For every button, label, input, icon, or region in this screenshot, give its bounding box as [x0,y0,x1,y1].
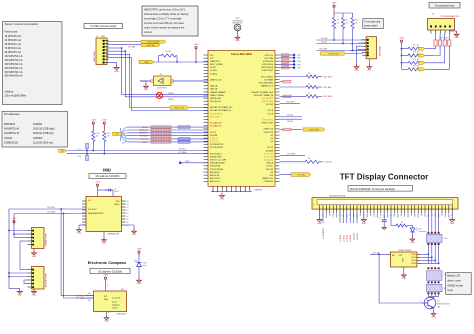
svg-text:RN1: RN1 [444,238,448,240]
svg-text:SDIO CD/NCK: SDIO CD/NCK [261,76,274,78]
svg-text:SDORA/: SDORA/ [210,134,218,137]
svg-text:LCD SDI: LCD SDI [323,87,332,89]
svg-text:Electronic Compass: Electronic Compass [88,260,127,265]
svg-text:100nF: 100nF [114,191,120,193]
svg-text:G3: G3 [271,138,273,140]
svg-text:SD/6_A4_D6: SD/6_A4_D6 [210,100,221,103]
svg-text:72 MHz/44 mA: 72 MHz/44 mA [5,47,22,50]
svg-text:VBAT/VRTC: VBAT/VRTC [210,60,221,63]
svg-text:VS1011: VS1011 [4,137,13,140]
svg-text:SDIO A2 BT5 SPARE_2b: SDIO A2 BT5 SPARE_2b [210,109,231,112]
svg-text:TP3: TP3 [297,61,300,63]
svg-text:[CTU]_TX: [CTU]_TX [210,138,219,140]
svg-text:TP5: TP5 [297,68,300,70]
svg-text:AUD DOUT: AUD DOUT [210,180,221,183]
svg-text:Teensy 4 current consumption:: Teensy 4 current consumption: [5,23,39,26]
svg-text:LDC SW: LDC SW [286,102,294,104]
svg-text:TP10: TP10 [185,161,190,163]
svg-text:3-axis: 3-axis [112,302,117,304]
svg-text:power switch: power switch [364,25,378,28]
svg-text:PCXXXSLBXAXXTXC: PCXXXSLBXAXXTXC [441,15,460,18]
svg-text:GND: GND [410,242,415,244]
svg-text:AP2502 is hard: AP2502 is hard [447,284,463,287]
svg-text:AUD LRCLK: AUD LRCLK [210,177,221,180]
svg-text:LED PCB A+K: LED PCB A+K [147,40,160,43]
svg-text:sensor: sensor [112,307,118,310]
svg-text:5V USB: 5V USB [210,70,217,72]
svg-text:WDT/DT_LLC_WM: WDT/DT_LLC_WM [210,160,226,162]
svg-text:CAM/A9 STANDBY: CAM/A9 STANDBY [210,91,227,94]
svg-text:LCD D2: LCD D2 [347,235,349,242]
svg-text:CAN_2B: CAN_2B [210,88,218,91]
svg-text:To membrane keys: To membrane keys [435,5,455,8]
svg-text:[CTU] TX3: [CTU] TX3 [264,153,273,155]
svg-text:VDDIO: VDDIO [114,204,120,206]
svg-text:1: 1 [420,301,421,303]
svg-text:SDIO A4 TX2 SPARE_2A 5: SDIO A4 TX2 SPARE_2A 5 [210,106,232,109]
svg-text:SYN CNAI: SYN CNAI [264,57,273,60]
svg-text:GND: GND [220,199,225,201]
svg-text:R8: R8 [308,158,310,160]
svg-text:LCD RESET: LCD RESET [323,227,325,238]
svg-text:SDA A4 TX2 SPARE_2A 3: SDA A4 TX2 SPARE_2A 3 [251,91,273,94]
svg-text:GND: GND [104,321,109,323]
svg-text:LED4: LED4 [411,263,416,265]
svg-text:LCD D0: LCD D0 [340,235,342,242]
svg-text:SW: SW [399,255,402,257]
svg-text:[PU] DC/SD2: [PU] DC/SD2 [262,101,273,103]
svg-text:R5: R5 [308,73,310,75]
svg-text:SCHOTTKY: SCHOTTKY [157,87,168,89]
svg-text:600 MHz/83 mA: 600 MHz/83 mA [5,75,23,78]
svg-text:G9: G9 [271,172,273,174]
svg-text:SDT/DT SPI/A4: SDT/DT SPI/A4 [210,168,223,171]
svg-text:0011011 (CSB low): 0011011 (CSB low) [33,132,54,135]
svg-text:SPI MOSI: SPI MOSI [139,130,148,132]
svg-text:[PU] DC/SD: [PU] DC/SD [210,116,221,118]
svg-text:R2x: R2x [346,20,349,22]
svg-text:GND: GND [431,317,436,319]
svg-text:Osc pin TL: Osc pin TL [264,160,273,162]
svg-text:IMU: IMU [103,168,111,173]
svg-text:to get: to get [447,289,453,292]
svg-text:LDC SW: LDC SW [319,49,327,51]
svg-text:under 0-ohm resistor to measur: under 0-ohm resistor to measure the [144,27,185,30]
svg-text:SDIO SDN NWKI: SDIO SDN NWKI [259,83,274,85]
svg-text:ENCODER: ENCODER [380,45,382,56]
svg-text:GND: GND [17,295,22,297]
svg-text:GND: GND [317,223,322,225]
svg-text:LSM6DSO32: LSM6DSO32 [4,141,19,144]
svg-text:G1/BT RTS: G1/BT RTS [264,132,274,134]
svg-text:LDC A: LDC A [321,37,327,40]
svg-text:GND: GND [362,223,367,225]
svg-text:magnetic: magnetic [112,304,120,307]
svg-text:SYNTH D4(O): SYNTH D4(O) [261,67,273,69]
svg-text:120 MHz/53 mA: 120 MHz/53 mA [5,55,23,58]
svg-text:LCD D5: LCD D5 [357,233,359,240]
svg-text:0011010 (CSB high): 0011010 (CSB high) [33,128,55,131]
svg-text:SSD/A A/T/SD/A4: SSD/A A/T/SD/A4 [210,162,225,165]
svg-text:R3x 10k: R3x 10k [413,59,419,61]
svg-text:SD TX/: SD TX/ [210,132,216,134]
svg-text:96 MHz/53 mA: 96 MHz/53 mA [5,51,22,54]
svg-text:GND: GND [114,71,119,73]
svg-text:R3x 10k: R3x 10k [413,52,419,54]
svg-text:SDT/LV ADC1: SDT/LV ADC1 [210,152,222,155]
svg-text:Adafruit:: Adafruit: [5,91,15,94]
svg-text:SDI A2 BT5 SPARE_2b: SDI A2 BT5 SPARE_2b [254,94,273,97]
svg-text:DSD/AV SDM: DSD/AV SDM [210,155,222,158]
svg-text:Internal series schottky diode: Internal series schottky diode on Teensy… [144,13,189,16]
svg-text:[CTU] TR3: [CTU] TR3 [264,156,273,158]
svg-text:R8: R8 [401,222,403,224]
svg-text:blue: blue [143,265,146,267]
svg-text:GND: GND [132,234,137,236]
svg-text:current.: current. [144,31,153,34]
svg-text:LCD DC: LCD DC [266,166,274,168]
svg-text:I2C SDA: I2C SDA [179,151,187,154]
svg-text:LED PCB: LED PCB [146,45,155,47]
svg-text:G4: G4 [271,141,273,143]
svg-text:LDC SW: LDC SW [266,104,273,106]
svg-text:BOOT_3V3/EN: BOOT_3V3/EN [210,64,223,66]
svg-text:JTX NB: JTX NB [128,46,136,48]
svg-text:GND: GND [454,37,459,39]
svg-text:400 MHz/82 mA: 400 MHz/82 mA [5,67,23,70]
svg-text:4k7: 4k7 [337,22,340,24]
svg-text:NAU88TSL #2: NAU88TSL #2 [4,132,20,135]
svg-text:GND: GND [235,40,240,42]
svg-text:SPI SCK: SPI SCK [140,136,148,138]
svg-text:[PD] NC/BOOT: [PD] NC/BOOT [210,113,223,115]
svg-text:USB D-: USB D- [168,99,174,101]
svg-text:CAM/D7 THREE: CAM/D7 THREE [210,94,224,97]
svg-text:GND: GND [32,295,37,297]
svg-text:SDORA/: SDORA/ [266,149,274,152]
svg-text:G0/BT CTS: G0/BT CTS [264,129,274,131]
svg-text:CONN BK: CONN BK [254,189,263,191]
svg-text:TP2: TP2 [297,58,300,60]
svg-text:PWM TOUCH: PWM TOUCH [261,123,273,125]
svg-text:SYNTH D49: SYNTH D49 [263,61,273,63]
svg-text:MICRO SD: MICRO SD [175,107,185,109]
svg-text:TFT Display Connector: TFT Display Connector [340,173,429,182]
svg-text:LCD D1: LCD D1 [343,235,345,242]
svg-text:GND: GND [102,243,107,245]
svg-text:LSM6DSO32: LSM6DSO32 [107,234,120,236]
svg-text:MISO: MISO [143,142,148,144]
svg-text:VBAT/VRTC can be from 2.8 to 3: VBAT/VRTC can be from 2.8 to 3.6 V. [144,8,186,11]
svg-text:LDC A: LDC A [287,114,293,117]
svg-text:DIATA/DIO CS: DIATA/DIO CS [261,85,274,88]
svg-text:MOSI: MOSI [143,127,148,129]
svg-text:300 MHz/63 mA: 300 MHz/63 mA [5,63,23,66]
svg-text:200 MHz/54 mA: 200 MHz/54 mA [5,59,23,62]
svg-text:48 MHz/41 mA: 48 MHz/41 mA [5,43,22,46]
svg-text:LCD D3: LCD D3 [350,235,352,242]
svg-text:DAT/PA CMD: DAT/PA CMD [210,97,222,100]
svg-text:LED2: LED2 [411,257,416,259]
svg-text:G10: G10 [270,175,274,177]
svg-text:SCL: SCL [104,296,108,298]
svg-text:SDV/CH2/W: SDV/CH2/W [210,166,221,168]
svg-text:4k7: 4k7 [107,136,110,138]
svg-text:100 mA @600 MHz: 100 mA @600 MHz [5,95,27,98]
svg-text:SCL: SCL [77,149,81,151]
svg-text:LDC B: LDC B [268,113,274,115]
svg-text:MMC5603: MMC5603 [4,123,16,126]
svg-text:NC_[SAO115]: NC_[SAO115] [210,125,222,128]
svg-text:SCL SCLK: SCL SCLK [88,209,97,211]
svg-text:C7: C7 [379,218,381,220]
svg-text:LCD WR: LCD WR [297,175,305,177]
svg-text:NC_[SAO115]: NC_[SAO115] [210,122,222,125]
svg-text:I2C SDA: I2C SDA [47,211,55,214]
svg-text:TP4: TP4 [297,64,300,66]
svg-text:[PD] SD/WL2: [PD] SD/WL2 [262,98,273,100]
svg-text:NAU88TSL #1: NAU88TSL #1 [4,128,20,131]
svg-text:GND: GND [354,70,359,72]
svg-text:R1 0R: R1 0R [165,51,171,53]
svg-text:Heartbeat: Heartbeat [419,230,427,233]
svg-text:CONN BK2: CONN BK2 [264,181,273,183]
svg-text:[PU] INT/SQ: [PU] INT/SQ [263,119,274,121]
svg-text:40LCD-24320245, 13 mA plus bac: 40LCD-24320245, 13 mA plus backlight [350,187,395,191]
svg-text:driver in case: driver in case [447,279,461,282]
svg-text:I2C SDA: I2C SDA [76,297,84,300]
svg-text:AUD MCLK: AUD MCLK [210,171,220,174]
svg-text:HEADPHONE: HEADPHONE [45,233,48,246]
svg-text:CAN_2A: CAN_2A [210,85,218,88]
svg-text:GND: GND [137,283,142,285]
svg-text:R7: R7 [308,93,310,95]
svg-text:GND: GND [402,278,407,280]
svg-text:SYNTH D4(I): SYNTH D4(I) [262,64,273,66]
svg-text:LED3: LED3 [411,260,416,262]
svg-text:TOUCH INT: TOUCH INT [309,129,320,131]
svg-text:SPI CS: SPI CS [141,139,148,141]
svg-text:I2C SCL: I2C SCL [179,149,186,151]
svg-text:4k7: 4k7 [96,136,99,138]
svg-text:LDC B: LDC B [287,121,294,123]
svg-text:9: 9 [108,313,109,315]
svg-text:4k7: 4k7 [355,22,358,24]
svg-text:I2C address: 1101000b: I2C address: 1101000b [96,175,120,178]
svg-text:[CTU]_TR: [CTU]_TR [210,141,219,143]
svg-text:R2x: R2x [337,20,340,22]
svg-text:LDC A: LDC A [268,109,274,112]
svg-text:SDA SDA/SDI/SDO: SDA SDA/SDI/SDO [88,212,104,215]
svg-text:8: 8 [107,285,108,287]
svg-text:To encoder and: To encoder and [364,20,381,23]
svg-text:GND: GND [403,257,405,262]
svg-text:G2: G2 [271,135,273,137]
svg-text:Backup LCD: Backup LCD [447,276,460,278]
svg-text:LDC B: LDC B [321,42,328,44]
svg-text:LCD SCK: LCD SCK [323,76,333,78]
svg-text:3V3: 3V3 [210,55,213,57]
svg-text:R3x 10k: R3x 10k [413,45,419,47]
svg-text:MMC56X3: MMC56X3 [117,313,127,315]
svg-text:BSS138 NB NI: BSS138 NB NI [437,304,450,306]
svg-text:MICROPHONE: MICROPHONE [46,273,48,287]
svg-text:J6: J6 [432,13,434,15]
svg-text:GND: GND [450,223,455,225]
svg-text:1101010 (SA0 low): 1101010 (SA0 low) [33,141,53,144]
svg-text:AUD BCLK: AUD BCLK [210,174,220,177]
svg-text:GND: GND [32,256,37,258]
svg-text:LCD RST: LCD RST [287,154,296,156]
svg-text:R3x 10k: R3x 10k [413,65,419,67]
svg-text:SYN CCK: SYN CCK [265,55,274,57]
svg-text:I2C address: 0110000b: I2C address: 0110000b [98,270,122,273]
svg-text:1.62-3.6V: 1.62-3.6V [112,298,121,300]
svg-text:0110000: 0110000 [33,123,43,126]
svg-text:Prog/prg: Prog/prg [210,72,217,75]
svg-text:4k7: 4k7 [346,22,349,24]
svg-text:GND: GND [367,70,372,72]
svg-text:SDT/LA RX/TX2: SDT/LA RX/TX2 [210,143,223,146]
svg-text:GND: GND [144,89,149,91]
svg-text:R2x: R2x [355,20,358,22]
svg-text:16 MHz/36 mA: 16 MHz/36 mA [5,35,22,38]
svg-text:USB CONN: USB CONN [94,51,96,62]
svg-text:SDT/LA TX/RX1: SDT/LA TX/RX1 [210,146,223,149]
svg-text:GND: GND [77,233,82,235]
svg-text:Teensy MicroMod: Teensy MicroMod [231,53,252,56]
svg-text:I2C SCL: I2C SCL [47,207,55,209]
svg-text:DIO NEAE: DIO NEAE [264,78,274,81]
svg-text:SPI MISO: SPI MISO [139,133,148,135]
svg-text:SD TX/: SD TX/ [267,147,273,149]
svg-text:USB/TCC_D5: USB/TCC_D5 [210,79,221,81]
svg-text:USB D+: USB D+ [168,93,175,95]
svg-text:Forum post:: Forum post: [5,31,19,34]
svg-text:SPI CS3: SPI CS3 [266,169,273,171]
svg-text:1000000: 1000000 [33,137,43,140]
svg-text:LCD D4: LCD D4 [354,233,356,240]
svg-text:SYNTH D5Q7: SYNTH D5Q7 [261,70,273,72]
svg-text:U7 AP5724WG: U7 AP5724WG [398,249,412,252]
svg-text:FORCE ON: FORCE ON [328,53,339,55]
svg-text:3V3: 3V3 [210,58,213,60]
svg-text:CAM/PD G11: CAM/PD G11 [262,177,273,180]
svg-text:VBAT: VBAT [144,61,150,64]
svg-text:I2C addresses:: I2C addresses: [4,113,20,116]
svg-text:24 MHz/36 mA: 24 MHz/36 mA [5,39,22,42]
svg-text:SDT/LA: SDT/LA [267,162,274,165]
svg-text:NM: NM [437,307,440,309]
svg-text:TP1: TP1 [297,55,300,57]
svg-text:To USB connector board: To USB connector board [90,25,117,28]
svg-text:500 MHz/68 mA: 500 MHz/68 mA [5,71,23,74]
svg-text:DXC4067WJQLNR: DXC4067WJQLNR [329,196,346,198]
svg-text:Current is at most 250 µA. Cut: Current is at most 250 µA. Cut trace [144,22,185,25]
svg-text:R6: R6 [308,84,310,86]
svg-text:LCD SDO: LCD SDO [323,96,333,98]
svg-text:RN1 4x470: RN1 4x470 [440,38,449,40]
svg-text:LED1: LED1 [411,254,416,256]
svg-text:Q1: Q1 [437,301,440,303]
svg-text:so perhaps 2.5 to 3.7 V extern: so perhaps 2.5 to 3.7 V externally. [144,18,182,21]
svg-text:5V NB: 5V NB [210,67,216,69]
svg-text:1: 1 [390,252,391,254]
svg-text:LCD DC: LCD DC [325,162,333,164]
